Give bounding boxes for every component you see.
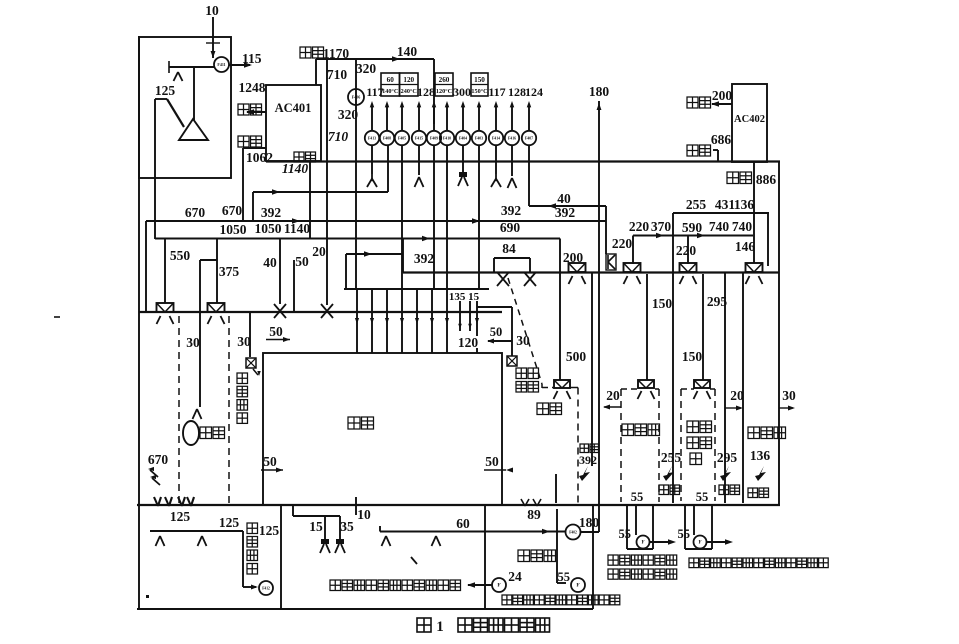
damper envelope 200 bbox=[569, 263, 586, 272]
temp box 60/140C bbox=[381, 73, 400, 96]
wire traction inner bbox=[555, 474, 557, 503]
svg-text:710: 710 bbox=[327, 67, 348, 82]
svg-text:550: 550 bbox=[170, 248, 191, 263]
diffuser under fq1b bbox=[638, 391, 642, 399]
svg-text:128: 128 bbox=[508, 85, 526, 99]
svg-text:255: 255 bbox=[686, 197, 707, 212]
wire left outer boundary bbox=[138, 36, 140, 609]
fan F 55b bbox=[694, 536, 707, 549]
svg-text:20: 20 bbox=[730, 388, 744, 403]
svg-text:392: 392 bbox=[579, 453, 597, 467]
wire 255 header bbox=[673, 212, 769, 214]
svg-text:F402: F402 bbox=[569, 531, 577, 535]
svg-text:F411: F411 bbox=[217, 62, 225, 67]
svg-text:670: 670 bbox=[148, 452, 169, 467]
box 55 a bbox=[626, 505, 628, 549]
wire 60 header bbox=[380, 531, 566, 533]
floor grilles left bbox=[154, 497, 158, 506]
svg-text:136: 136 bbox=[734, 197, 755, 212]
wire 40 drop bbox=[605, 206, 607, 254]
wire drop to env2 bbox=[687, 236, 689, 265]
caption bbox=[417, 618, 431, 632]
svg-text:10: 10 bbox=[357, 507, 371, 522]
wire 886 jog bbox=[767, 213, 769, 266]
wire 1140 drop bbox=[309, 161, 311, 238]
wire oven outlet L drop bbox=[249, 312, 251, 357]
wire supply 1170 header bbox=[316, 58, 434, 60]
diffuser under header bbox=[174, 72, 179, 81]
ret damper bz bbox=[755, 466, 766, 481]
label basement bbox=[518, 550, 530, 562]
wire fan2 drop bbox=[387, 145, 389, 192]
wire header H3 1050 bbox=[155, 238, 560, 240]
dashed wire zone b bbox=[228, 316, 230, 503]
wire 50 column bbox=[293, 260, 295, 312]
svg-text:180: 180 bbox=[579, 515, 600, 530]
svg-text:20: 20 bbox=[606, 388, 620, 403]
diffuser under 200 bbox=[569, 276, 573, 284]
diffuser under 550 bbox=[157, 316, 161, 324]
wire 392 step bbox=[346, 253, 403, 255]
damper envelope 550 bbox=[157, 303, 174, 312]
svg-text:590: 590 bbox=[682, 220, 703, 235]
diffusers bl bbox=[156, 536, 161, 546]
wire fan6 drop bbox=[446, 145, 448, 289]
wire huifeng392 drop bbox=[591, 272, 593, 466]
cone symbol bbox=[179, 119, 208, 140]
svg-text:320: 320 bbox=[356, 61, 377, 76]
label process out right bbox=[689, 558, 699, 568]
damper envelope bz bbox=[746, 263, 763, 272]
wire 320 riser bbox=[355, 59, 357, 289]
svg-text:295: 295 bbox=[717, 450, 738, 465]
wire fan outlet 115 bbox=[229, 64, 250, 66]
wire fan risers bbox=[371, 104, 373, 130]
wire 180 riser bbox=[598, 101, 600, 532]
svg-text:392: 392 bbox=[261, 205, 282, 220]
svg-text:220: 220 bbox=[612, 236, 633, 251]
svg-text:50: 50 bbox=[269, 324, 283, 339]
diffuser fan9 bbox=[495, 145, 497, 174]
svg-text:240°C: 240°C bbox=[401, 88, 417, 95]
stray dot bottom left bbox=[146, 595, 149, 598]
wire mid vert 725 bbox=[724, 272, 726, 503]
wire lenggu drop bbox=[199, 260, 201, 407]
wire 180 to fan bbox=[581, 531, 599, 533]
svg-text:300: 300 bbox=[453, 85, 471, 99]
fan F411 bbox=[214, 57, 229, 72]
wire fq2 drop bbox=[702, 274, 704, 380]
svg-text:686: 686 bbox=[711, 132, 732, 147]
fan F406 bbox=[348, 89, 364, 105]
svg-text:F404: F404 bbox=[459, 137, 467, 141]
svg-text:740: 740 bbox=[709, 219, 730, 234]
label packaging bbox=[748, 427, 760, 439]
svg-text:1050: 1050 bbox=[255, 221, 282, 236]
label splitter bbox=[622, 424, 634, 436]
label 13515 bbox=[448, 290, 479, 301]
label lenggu bbox=[200, 427, 212, 439]
label reserve splitter bbox=[687, 421, 699, 433]
wire mid vert 673 bbox=[672, 272, 674, 503]
svg-text:220: 220 bbox=[676, 243, 697, 258]
wire duct 10 into room bbox=[212, 17, 214, 58]
unit AC401 bbox=[266, 85, 321, 161]
svg-text:320: 320 bbox=[338, 107, 359, 122]
svg-text:10: 10 bbox=[205, 3, 219, 18]
svg-text:392: 392 bbox=[414, 251, 435, 266]
svg-text:886: 886 bbox=[756, 172, 777, 187]
dashed box reserve bbox=[681, 388, 694, 390]
svg-text:60: 60 bbox=[387, 76, 395, 84]
svg-text:F416: F416 bbox=[508, 137, 516, 141]
wire H2 left drop bbox=[145, 221, 147, 312]
svg-text:F405: F405 bbox=[398, 137, 406, 141]
label huifeng AC402 bbox=[687, 145, 698, 156]
label huifeng fq1 bbox=[659, 485, 669, 495]
wire mid vert 743 bbox=[742, 272, 744, 503]
svg-text:40: 40 bbox=[557, 191, 571, 206]
svg-text:500: 500 bbox=[566, 349, 587, 364]
wire 55 drop basement bbox=[556, 509, 558, 583]
arrow 20 fq2 bbox=[725, 407, 741, 409]
wire to exhaust fan bbox=[243, 586, 256, 588]
label process out left bbox=[330, 580, 341, 591]
valve X 84a bbox=[497, 272, 509, 286]
svg-text:F412: F412 bbox=[262, 587, 270, 591]
arrow oven outlet L bbox=[253, 369, 258, 375]
svg-text:24: 24 bbox=[508, 569, 522, 584]
svg-text:255: 255 bbox=[661, 450, 682, 465]
wire 50 pocket bbox=[477, 306, 512, 308]
wire 710 riser bbox=[326, 59, 328, 305]
wire right boundary bbox=[778, 162, 780, 506]
wire 375 stub bbox=[200, 259, 217, 261]
svg-text:F407: F407 bbox=[525, 137, 533, 141]
temp box 260/120C bbox=[435, 73, 453, 96]
svg-text:220: 220 bbox=[629, 219, 650, 234]
wire xinfeng AC402 bbox=[712, 103, 732, 105]
wire 125 branch bbox=[155, 98, 167, 100]
svg-text:F: F bbox=[641, 541, 644, 546]
grille fan7 bbox=[462, 145, 464, 172]
fan basement in bbox=[566, 525, 581, 540]
box oven bbox=[263, 353, 502, 505]
wire 140 drop to fan bbox=[433, 59, 435, 124]
fan row F413..F407 bbox=[365, 131, 379, 145]
svg-text:89: 89 bbox=[527, 507, 541, 522]
diffusers 60 bbox=[382, 536, 387, 546]
svg-text:375: 375 bbox=[219, 264, 240, 279]
svg-text:150: 150 bbox=[652, 296, 673, 311]
ret damper fq2 bbox=[720, 466, 731, 481]
svg-text:140: 140 bbox=[397, 44, 418, 59]
damper envelope fq2b bbox=[694, 380, 710, 388]
damper envelope fq1 bbox=[624, 263, 641, 272]
wire 550 column bbox=[164, 239, 166, 303]
temp box 150/150C bbox=[471, 73, 488, 96]
svg-text:120: 120 bbox=[403, 76, 414, 84]
grille 15 bbox=[321, 539, 329, 544]
damper boxX oven outlet R bbox=[507, 356, 517, 366]
diffuser under traction bbox=[554, 391, 558, 399]
break 89 bbox=[521, 499, 525, 506]
svg-text:146: 146 bbox=[735, 239, 756, 254]
label 50 oven right top bbox=[488, 327, 503, 338]
svg-text:30: 30 bbox=[237, 334, 251, 349]
diffuser under fq2 bbox=[680, 276, 684, 284]
fan F basement b bbox=[492, 578, 506, 592]
wire 886 drop a bbox=[753, 162, 755, 263]
svg-text:150: 150 bbox=[682, 349, 703, 364]
wire room drop bbox=[193, 67, 195, 120]
wire comb teeth bbox=[356, 289, 358, 353]
arrow 20 fq1 bbox=[604, 406, 621, 408]
svg-text:50: 50 bbox=[485, 454, 499, 469]
wire 40 column bbox=[279, 239, 281, 305]
label songfeng top bbox=[300, 47, 311, 58]
wire fan3 drop bbox=[401, 145, 403, 289]
svg-text:295: 295 bbox=[707, 294, 728, 309]
svg-text:140°C: 140°C bbox=[382, 88, 398, 95]
svg-text:117: 117 bbox=[488, 85, 505, 99]
damper envelope fq2 bbox=[680, 263, 697, 272]
svg-text:AC402: AC402 bbox=[734, 114, 765, 125]
damper envelope fq1b bbox=[638, 380, 654, 388]
svg-text:15: 15 bbox=[309, 519, 323, 534]
diffuser under bz bbox=[746, 276, 750, 284]
svg-text:50: 50 bbox=[263, 454, 277, 469]
svg-text:30: 30 bbox=[782, 388, 796, 403]
fan lenggu bbox=[193, 409, 198, 419]
svg-text:392: 392 bbox=[501, 203, 522, 218]
temp box 120/240C bbox=[400, 73, 419, 96]
svg-text:180: 180 bbox=[589, 84, 610, 99]
dash corner traction L bbox=[541, 384, 543, 388]
label songfeng bottom bbox=[294, 152, 304, 162]
box 55 b bbox=[684, 505, 686, 549]
diffuser under 375 bbox=[208, 316, 212, 324]
label huifeng fq2 bbox=[719, 485, 729, 495]
svg-text:55: 55 bbox=[696, 490, 709, 504]
valve X 20 bbox=[321, 304, 333, 318]
svg-text:115: 115 bbox=[242, 51, 262, 66]
valve K 220 bbox=[606, 254, 616, 270]
label 120 bbox=[457, 336, 480, 348]
svg-text:124: 124 bbox=[525, 85, 543, 99]
label exhaust outdoor bbox=[247, 523, 258, 534]
wire 590 header bbox=[633, 235, 753, 237]
label huifeng 392 bbox=[580, 444, 589, 453]
label traction bbox=[537, 403, 549, 415]
svg-text:136: 136 bbox=[750, 448, 771, 463]
svg-text:431: 431 bbox=[715, 197, 736, 212]
label oven outlet R col2 bbox=[528, 368, 539, 379]
dashed wire zone a bbox=[178, 316, 180, 503]
damper envelope traction bbox=[554, 380, 570, 388]
wire fan2 runout drop bbox=[252, 192, 254, 221]
box basement bbox=[484, 505, 486, 609]
wire return air AC401 bbox=[243, 147, 266, 149]
wire header H2 670 bbox=[146, 220, 606, 222]
svg-text:125: 125 bbox=[259, 523, 280, 538]
wire room header bbox=[169, 66, 214, 68]
wire fq1 drop bbox=[646, 274, 648, 380]
svg-text:125: 125 bbox=[155, 83, 176, 98]
unit AC402 bbox=[732, 84, 767, 162]
svg-text:128: 128 bbox=[417, 85, 435, 99]
svg-text:F413: F413 bbox=[368, 137, 376, 141]
svg-text:200: 200 bbox=[712, 88, 733, 103]
svg-text:690: 690 bbox=[500, 220, 521, 235]
svg-text:F414: F414 bbox=[492, 137, 500, 141]
svg-text:AC401: AC401 bbox=[275, 101, 312, 115]
label process out mid bbox=[608, 555, 618, 565]
svg-text:F415: F415 bbox=[415, 137, 423, 141]
svg-text:1140: 1140 bbox=[282, 161, 309, 176]
label xinfeng AC402 bbox=[687, 97, 698, 108]
svg-text:F408: F408 bbox=[383, 137, 391, 141]
svg-text:40: 40 bbox=[263, 255, 277, 270]
box bottom left bbox=[137, 608, 593, 610]
svg-text:30: 30 bbox=[516, 333, 530, 348]
valve X 40 bbox=[274, 304, 286, 318]
wire fan2 runout bbox=[359, 191, 388, 193]
svg-text:135 15: 135 15 bbox=[449, 291, 480, 303]
wire main line right bbox=[403, 271, 779, 273]
wire floor line bbox=[137, 504, 544, 506]
wire exhaust column 550-670 bbox=[154, 99, 156, 239]
svg-text:125: 125 bbox=[170, 509, 191, 524]
label oven outlet R col1 bbox=[516, 368, 527, 379]
stray dash left bbox=[54, 316, 60, 318]
label huifeng AC401 bbox=[238, 136, 249, 147]
svg-text:150°C: 150°C bbox=[471, 88, 487, 95]
wire huifeng AC402 bbox=[713, 149, 718, 151]
svg-text:150: 150 bbox=[474, 76, 485, 84]
svg-text:F: F bbox=[698, 541, 701, 546]
svg-text:55: 55 bbox=[631, 490, 644, 504]
wire drop to env1 bbox=[632, 236, 634, 265]
label huifeng bz bbox=[748, 488, 758, 498]
wire supply 1170 riser bbox=[315, 59, 317, 85]
svg-text:55: 55 bbox=[619, 527, 632, 541]
wire main header H1 bbox=[266, 160, 780, 162]
ret damper fq1 bbox=[663, 466, 674, 481]
svg-text:1248: 1248 bbox=[239, 80, 266, 95]
dashed box splitter bbox=[621, 388, 637, 390]
svg-text:35: 35 bbox=[340, 519, 354, 534]
wire fan11 drop bbox=[528, 145, 530, 206]
dash corner traction R bbox=[570, 387, 578, 389]
wire floor line right bbox=[544, 504, 780, 506]
wire fan5 drop bbox=[433, 145, 435, 289]
svg-text:1050: 1050 bbox=[220, 222, 247, 237]
svg-text:F403: F403 bbox=[475, 137, 483, 141]
damper boxX oven outlet L bbox=[246, 358, 256, 368]
dashed pull line bbox=[508, 278, 542, 384]
wire exhaust header bl bbox=[150, 530, 243, 532]
damper envelope 375 bbox=[208, 303, 225, 312]
arrow out 55b bbox=[707, 541, 730, 543]
diffuser fan4 bbox=[418, 145, 420, 175]
svg-text:F410: F410 bbox=[443, 137, 451, 141]
svg-text:392: 392 bbox=[555, 205, 576, 220]
wire H3 drop to 200 bbox=[559, 239, 561, 381]
wire fan8 drop bbox=[478, 145, 480, 289]
svg-text:260: 260 bbox=[439, 76, 450, 84]
svg-text:740: 740 bbox=[732, 219, 753, 234]
fan F basement a bbox=[571, 578, 585, 592]
svg-text:20: 20 bbox=[312, 244, 326, 259]
diffuser under fq1 bbox=[624, 276, 628, 284]
arrow out 55a bbox=[650, 541, 673, 543]
diffuser under fq2b bbox=[694, 391, 698, 399]
wire under oven bbox=[292, 505, 294, 516]
svg-text:670: 670 bbox=[222, 203, 243, 218]
svg-text:30: 30 bbox=[186, 335, 200, 350]
box exhaust room bbox=[139, 37, 231, 178]
wire comb top bbox=[344, 288, 489, 290]
svg-text:1062: 1062 bbox=[246, 150, 273, 165]
valve X 84b bbox=[524, 272, 536, 286]
wall exhaust arrows bbox=[150, 470, 158, 477]
svg-text:370: 370 bbox=[651, 219, 672, 234]
stray tick bbox=[411, 557, 417, 564]
svg-text:1140: 1140 bbox=[284, 221, 311, 236]
label songfeng AC402 bbox=[727, 172, 739, 184]
wire fan out left bbox=[468, 584, 492, 586]
diffuser fan10 bbox=[511, 145, 513, 176]
fan F 55a bbox=[637, 536, 650, 549]
svg-text:84: 84 bbox=[502, 241, 516, 256]
wire 40 runout bbox=[529, 205, 606, 207]
svg-text:120°C: 120°C bbox=[436, 88, 452, 95]
label oven bbox=[348, 417, 360, 429]
svg-text:F409: F409 bbox=[430, 137, 438, 141]
svg-text:60: 60 bbox=[456, 516, 470, 531]
svg-text:710: 710 bbox=[328, 129, 349, 144]
grille 35 bbox=[336, 539, 344, 544]
label process in bbox=[502, 595, 512, 605]
arrow 30 right bbox=[779, 407, 793, 409]
svg-text:50: 50 bbox=[295, 254, 309, 269]
svg-text:120: 120 bbox=[458, 335, 479, 350]
box 84 bbox=[494, 257, 530, 259]
diffuser fan1 bbox=[371, 145, 373, 174]
wire 375 column bbox=[216, 239, 218, 303]
svg-text:55: 55 bbox=[678, 527, 691, 541]
ret damper traction bbox=[579, 466, 590, 481]
wire 10 stub bbox=[355, 497, 357, 515]
label xinfeng AC401 bbox=[238, 104, 249, 115]
wire fresh air AC401 bbox=[247, 111, 266, 113]
svg-text:670: 670 bbox=[185, 205, 206, 220]
label oven outlet L bbox=[237, 373, 248, 384]
svg-text:50: 50 bbox=[490, 325, 503, 339]
fan exhaust outdoor bbox=[259, 581, 273, 595]
svg-text:1: 1 bbox=[436, 619, 444, 635]
svg-text:125: 125 bbox=[219, 515, 240, 530]
wire main line left bbox=[139, 311, 502, 313]
svg-text:55: 55 bbox=[558, 570, 571, 584]
